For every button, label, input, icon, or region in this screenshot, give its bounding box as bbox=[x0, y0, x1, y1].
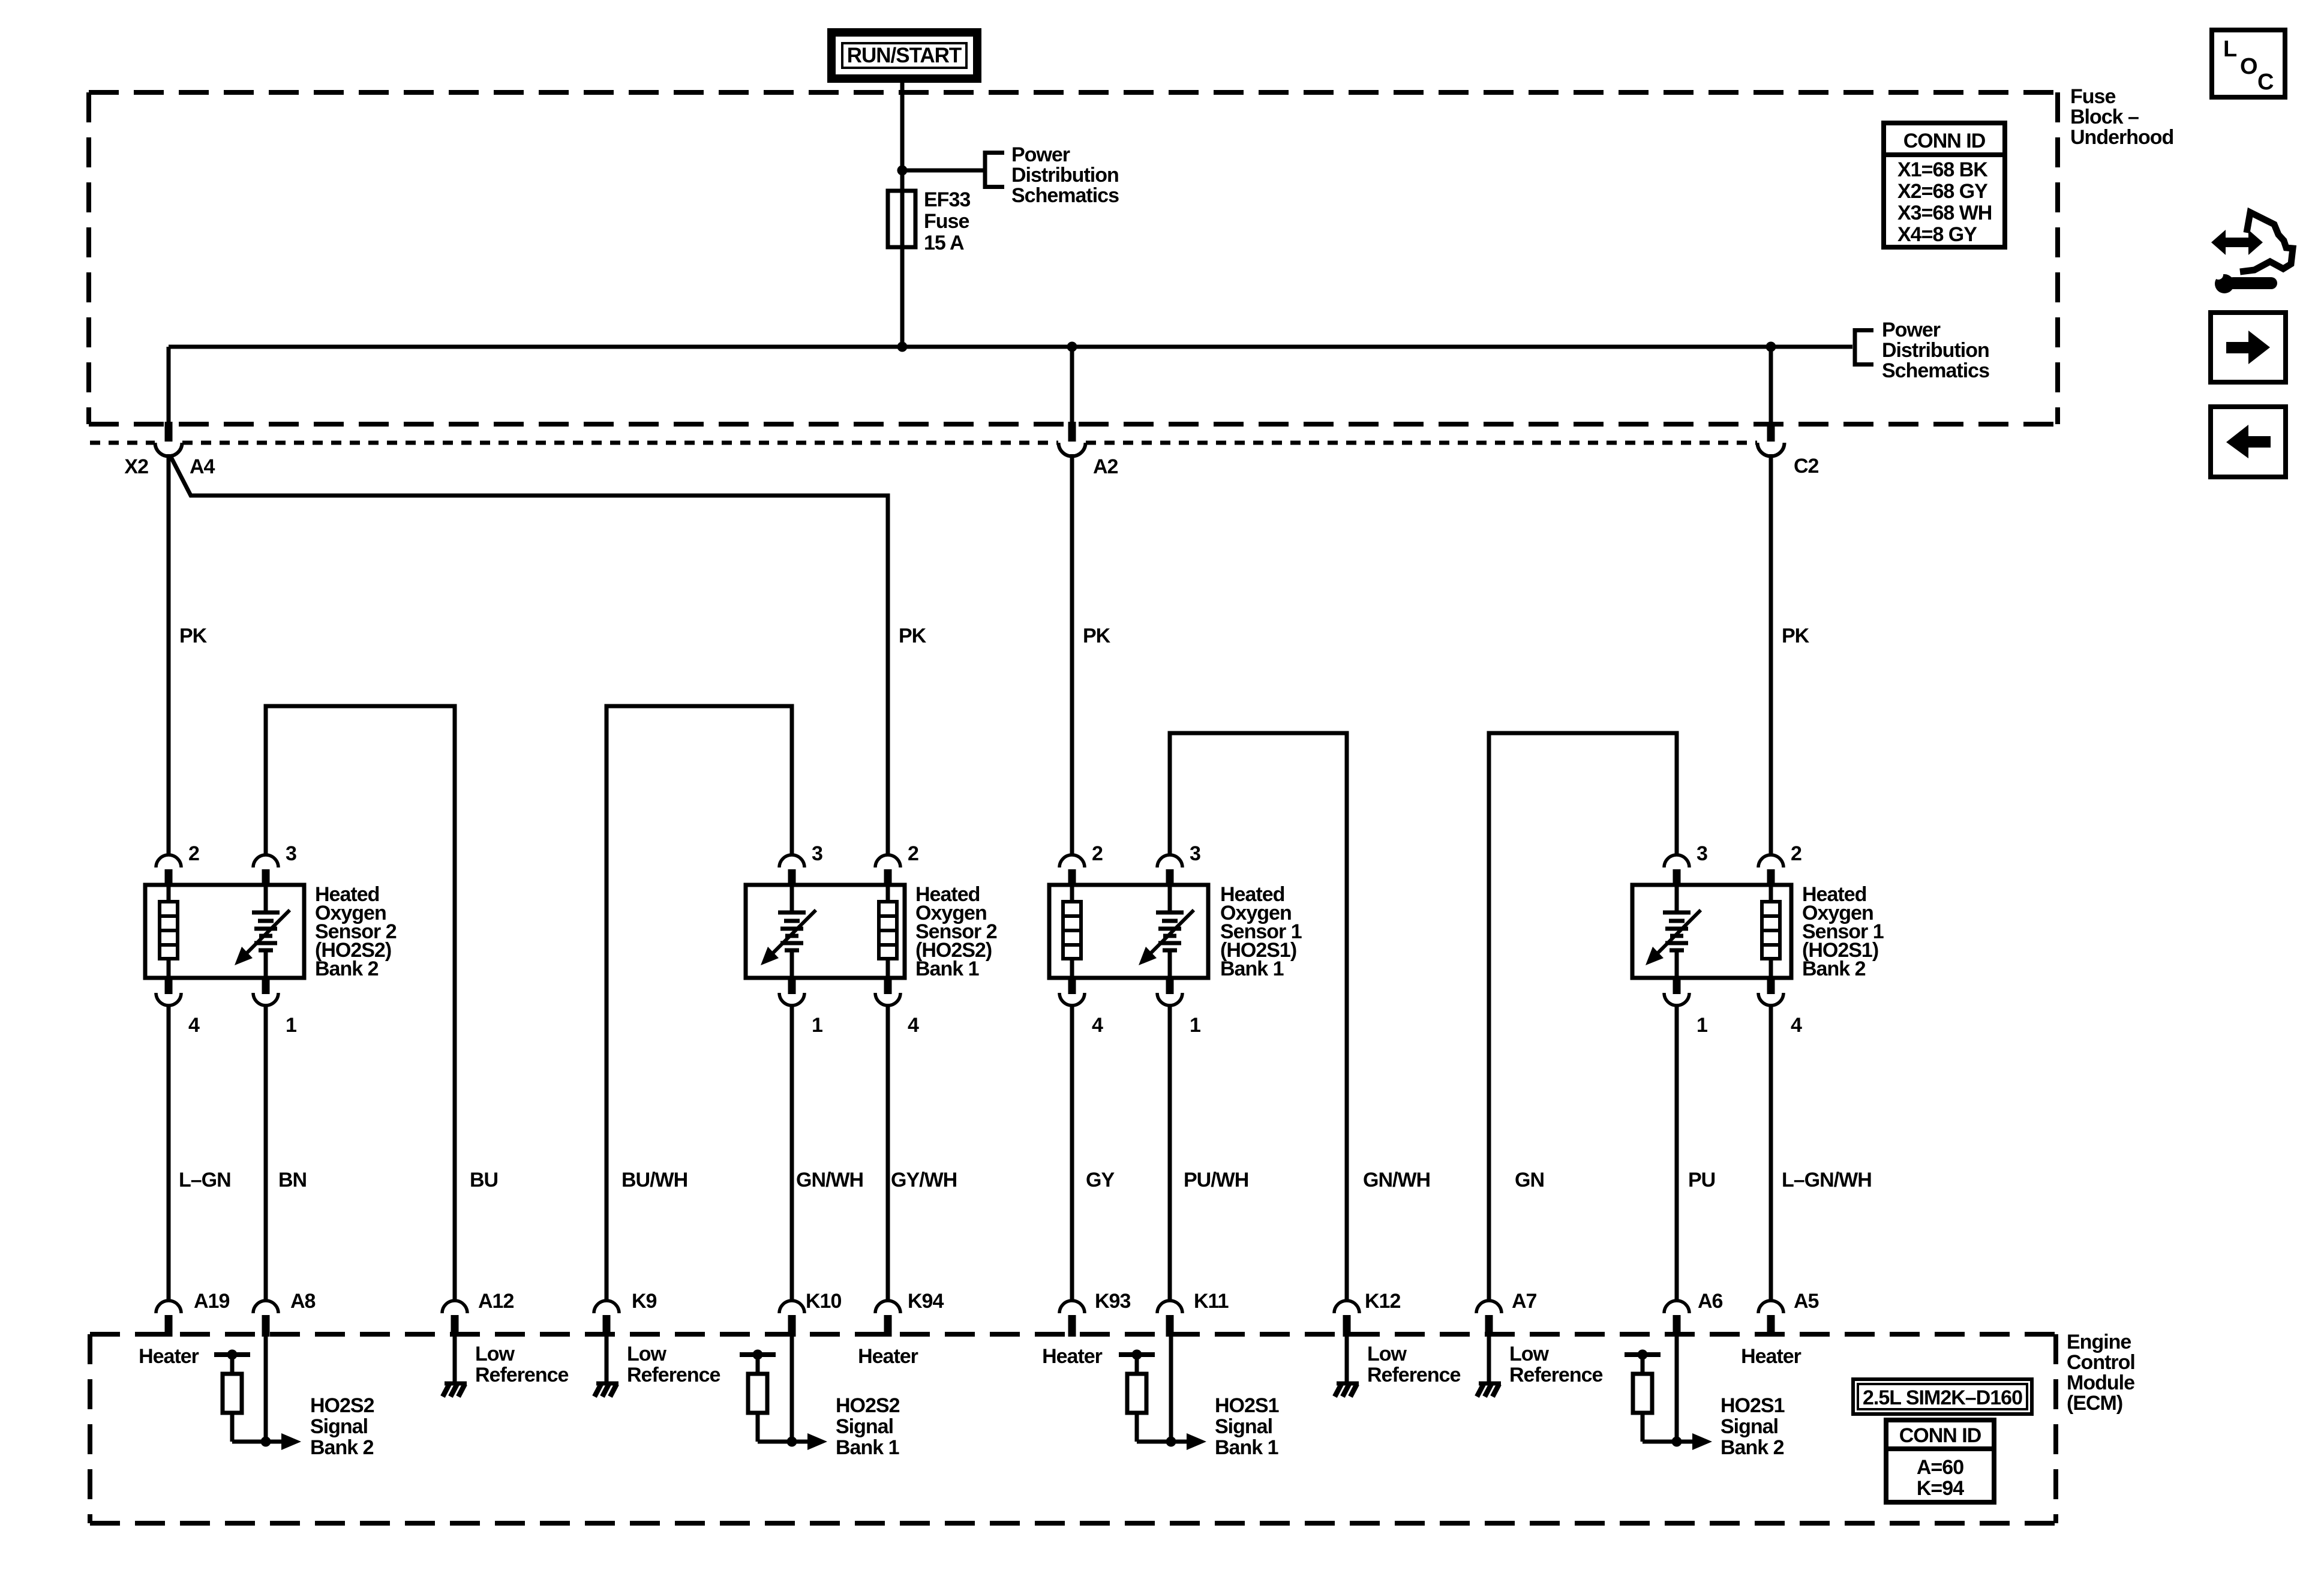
svg-text:2.5L SIM2K–D160: 2.5L SIM2K–D160 bbox=[1863, 1386, 2022, 1409]
signal arrow bbox=[1171, 1440, 1188, 1444]
svg-text:K=94: K=94 bbox=[1917, 1477, 1964, 1500]
svg-text:PK: PK bbox=[179, 625, 208, 647]
svg-text:K10: K10 bbox=[806, 1290, 841, 1313]
resistor (pull-up HO2S1 Bank 1) bbox=[1119, 1352, 1155, 1357]
connector pin 4 (HO2S1 Bank 1) bbox=[1068, 978, 1076, 994]
node signal junction bbox=[1166, 1437, 1176, 1447]
fuse block dashed box bbox=[89, 90, 2058, 95]
connector pin A8 (ECM) bbox=[253, 1301, 278, 1313]
sensing cell (HO2S1 Bank 1) bbox=[1168, 885, 1172, 912]
svg-text:1: 1 bbox=[286, 1014, 296, 1037]
svg-text:Engine: Engine bbox=[2067, 1331, 2131, 1353]
connector A2 bbox=[1070, 347, 1074, 424]
connector boundary dotted line bbox=[90, 441, 155, 445]
svg-text:GY/WH: GY/WH bbox=[891, 1169, 957, 1191]
wire sensor drop x=1787 bbox=[1070, 1008, 1074, 1301]
svg-text:X2=68 GY: X2=68 GY bbox=[1897, 180, 1988, 203]
connector pin 4 (HO2S1 Bank 2) bbox=[1767, 978, 1775, 994]
wire low reference x=2245 bbox=[1345, 1337, 1349, 1382]
node junction to power distribution bbox=[897, 166, 908, 176]
wire jog K9 to sensor2 pin3 bbox=[606, 706, 792, 1301]
wire sensor drop x=443 bbox=[264, 1008, 268, 1301]
icon arrow-left box bbox=[2211, 407, 2286, 477]
svg-text:X1=68 BK: X1=68 BK bbox=[1897, 158, 1988, 181]
svg-text:BN: BN bbox=[278, 1169, 307, 1191]
svg-text:A8: A8 bbox=[290, 1290, 316, 1313]
svg-text:Control: Control bbox=[2067, 1351, 2135, 1374]
connector pin K9 (ECM) bbox=[594, 1301, 619, 1313]
wire PK A4 branch to HO2S2 bank1 pin2 bbox=[170, 455, 888, 855]
wire sensor drop x=1480 bbox=[886, 1008, 890, 1301]
svg-text:4: 4 bbox=[188, 1014, 200, 1037]
svg-text:Power: Power bbox=[1882, 319, 1941, 341]
svg-text:Heater: Heater bbox=[858, 1345, 918, 1368]
svg-text:Bank 1: Bank 1 bbox=[836, 1436, 899, 1459]
connector pin 4 (HO2S2 Bank 2) bbox=[165, 978, 173, 994]
svg-text:2: 2 bbox=[908, 842, 918, 865]
node signal junction bbox=[261, 1437, 271, 1447]
wire PK A4 to HO2S2 bank2 pin2 bbox=[167, 454, 171, 855]
heated oxygen sensor HO2S1 Bank 2 bbox=[1632, 885, 1791, 978]
heater element (HO2S2 Bank 1) bbox=[886, 885, 890, 902]
signal arrow bbox=[266, 1440, 283, 1444]
signal circuit HO2S1 Bank 1 bbox=[1169, 1337, 1173, 1442]
heated oxygen sensor HO2S2 Bank 1 bbox=[746, 885, 905, 978]
node signal junction bbox=[1672, 1437, 1682, 1447]
connector pin 1 (HO2S1 Bank 1) bbox=[1166, 978, 1174, 994]
svg-text:PU/WH: PU/WH bbox=[1184, 1169, 1248, 1191]
svg-text:PK: PK bbox=[899, 625, 927, 647]
connector pin 3 (HO2S1 Bank 2) bbox=[1664, 855, 1689, 867]
svg-text:2: 2 bbox=[1092, 842, 1103, 865]
ground (low reference) bbox=[1337, 1382, 1359, 1386]
svg-text:Bank 1: Bank 1 bbox=[915, 957, 979, 980]
icon connector-tool (double arrow, outline, wrench) bbox=[2211, 212, 2293, 293]
CONN ID table (ECM) bbox=[1886, 1420, 1994, 1502]
node fuse/bus junction bbox=[897, 342, 908, 352]
wire bus inside fuse block bbox=[169, 345, 1852, 349]
svg-text:GN/WH: GN/WH bbox=[796, 1169, 863, 1191]
svg-text:CONN ID: CONN ID bbox=[1903, 130, 1986, 152]
heater element (HO2S2 Bank 2) bbox=[167, 885, 171, 902]
signal circuit HO2S2 Bank 2 bbox=[264, 1337, 268, 1442]
svg-text:Fuse: Fuse bbox=[924, 210, 969, 233]
svg-text:15 A: 15 A bbox=[924, 232, 964, 254]
svg-text:PK: PK bbox=[1083, 625, 1111, 647]
connector pin 4 (HO2S2 Bank 1) bbox=[884, 978, 892, 994]
svg-text:Signal: Signal bbox=[310, 1415, 368, 1438]
resistor (pull-up HO2S2 Bank 2) bbox=[214, 1352, 250, 1357]
svg-text:A5: A5 bbox=[1794, 1290, 1819, 1313]
wire branch to power distribution bbox=[902, 169, 985, 173]
wire RUN/START down bbox=[900, 79, 905, 347]
connector pin 3 (HO2S2 Bank 2) bbox=[253, 855, 278, 867]
sensing cell (HO2S2 Bank 2) bbox=[264, 885, 268, 912]
wire low reference x=2482 bbox=[1487, 1337, 1491, 1382]
wire jog sensor3 pin3 to K12 bbox=[1170, 733, 1347, 1301]
svg-text:1: 1 bbox=[812, 1014, 822, 1037]
svg-text:A7: A7 bbox=[1512, 1290, 1537, 1313]
connector pin A5 (ECM) bbox=[1758, 1301, 1783, 1313]
svg-text:HO2S2: HO2S2 bbox=[836, 1394, 900, 1417]
svg-text:Reference: Reference bbox=[627, 1364, 720, 1386]
connector pin 1 (HO2S2 Bank 1) bbox=[788, 978, 796, 994]
svg-text:GN: GN bbox=[1515, 1169, 1544, 1191]
svg-text:2: 2 bbox=[1791, 842, 1801, 865]
svg-text:Reference: Reference bbox=[475, 1364, 569, 1386]
connector pin 2 (HO2S2 Bank 2) bbox=[156, 855, 181, 867]
svg-text:RUN/START: RUN/START bbox=[847, 44, 962, 67]
svg-text:GY: GY bbox=[1086, 1169, 1115, 1191]
svg-text:Low: Low bbox=[1367, 1343, 1407, 1365]
svg-text:A12: A12 bbox=[478, 1290, 514, 1313]
svg-text:Bank 2: Bank 2 bbox=[315, 957, 379, 980]
svg-text:Signal: Signal bbox=[1215, 1415, 1272, 1438]
svg-text:X4=8 GY: X4=8 GY bbox=[1897, 223, 1977, 246]
ground (low reference) bbox=[1479, 1382, 1501, 1386]
connector pin A6 (ECM) bbox=[1664, 1301, 1689, 1313]
svg-text:Signal: Signal bbox=[1721, 1415, 1778, 1438]
connector pin K12 (ECM) bbox=[1334, 1301, 1359, 1313]
svg-text:Reference: Reference bbox=[1367, 1364, 1461, 1386]
svg-text:3: 3 bbox=[1190, 842, 1200, 865]
wire sensor drop x=1950 bbox=[1168, 1008, 1172, 1301]
svg-text:CONN ID: CONN ID bbox=[1899, 1424, 1981, 1447]
svg-text:Bank 2: Bank 2 bbox=[310, 1436, 374, 1459]
svg-text:2: 2 bbox=[188, 842, 199, 865]
svg-text:K12: K12 bbox=[1365, 1290, 1400, 1313]
svg-text:Low: Low bbox=[1509, 1343, 1550, 1365]
svg-text:Signal: Signal bbox=[836, 1415, 893, 1438]
svg-text:GN/WH: GN/WH bbox=[1363, 1169, 1430, 1191]
svg-text:4: 4 bbox=[1092, 1014, 1103, 1037]
wire low reference x=758 bbox=[453, 1337, 457, 1382]
svg-text:Distribution: Distribution bbox=[1882, 339, 1989, 362]
signal arrow bbox=[792, 1440, 809, 1444]
svg-text:C: C bbox=[2257, 70, 2274, 95]
icon arrow-right box bbox=[2211, 313, 2286, 382]
svg-text:1: 1 bbox=[1190, 1014, 1200, 1037]
svg-text:Heater: Heater bbox=[139, 1345, 199, 1368]
resistor (pull-up HO2S2 Bank 1) bbox=[740, 1352, 776, 1357]
svg-text:L: L bbox=[2223, 37, 2237, 62]
heater element (HO2S1 Bank 1) bbox=[1070, 885, 1074, 902]
svg-text:3: 3 bbox=[812, 842, 822, 865]
engine control module dashed box bbox=[90, 1332, 2056, 1337]
wire sensor drop x=281 bbox=[167, 1008, 171, 1301]
svg-text:X2: X2 bbox=[124, 455, 148, 478]
svg-text:X3=68 WH: X3=68 WH bbox=[1897, 202, 1992, 224]
svg-text:Heater: Heater bbox=[1741, 1345, 1801, 1368]
svg-text:3: 3 bbox=[1697, 842, 1707, 865]
heater element (HO2S1 Bank 2) bbox=[1769, 885, 1773, 902]
svg-text:A=60: A=60 bbox=[1917, 1456, 1963, 1479]
connector pin 1 (HO2S1 Bank 2) bbox=[1673, 978, 1681, 994]
svg-text:Module: Module bbox=[2067, 1371, 2134, 1394]
icon LOC box bbox=[2212, 30, 2285, 97]
node C2 junction bbox=[1766, 342, 1776, 352]
connector X2 pin A4 bbox=[167, 347, 171, 424]
connector pin A12 (ECM) bbox=[442, 1301, 467, 1313]
connector pin K10 (ECM) bbox=[779, 1301, 804, 1313]
connector pin 1 (HO2S2 Bank 2) bbox=[262, 978, 270, 994]
wire PK C2 to HO2S1 bank2 pin2 bbox=[1769, 454, 1773, 855]
svg-text:Heater: Heater bbox=[1042, 1345, 1103, 1368]
svg-text:K93: K93 bbox=[1095, 1290, 1130, 1313]
node signal junction bbox=[787, 1437, 797, 1447]
wire jog sensor1 pin3 to A12 bbox=[266, 706, 455, 1301]
svg-text:A2: A2 bbox=[1093, 455, 1118, 478]
svg-text:K9: K9 bbox=[632, 1290, 657, 1313]
svg-text:HO2S1: HO2S1 bbox=[1215, 1394, 1279, 1417]
resistor (pull-up HO2S1 Bank 2) bbox=[1625, 1352, 1661, 1357]
wire sensor drop x=1320 bbox=[790, 1008, 794, 1301]
svg-text:3: 3 bbox=[286, 842, 296, 865]
svg-text:1: 1 bbox=[1697, 1014, 1707, 1037]
node A2 junction bbox=[1067, 342, 1077, 352]
ground (low reference) bbox=[445, 1382, 467, 1386]
svg-text:A6: A6 bbox=[1698, 1290, 1723, 1313]
signal arrow bbox=[1677, 1440, 1694, 1444]
label 2.5L SIM2K-D160 bbox=[1853, 1379, 2032, 1414]
wire sensor drop x=2795 bbox=[1675, 1008, 1679, 1301]
svg-text:PK: PK bbox=[1782, 625, 1810, 647]
svg-text:Reference: Reference bbox=[1509, 1364, 1603, 1386]
svg-text:Power: Power bbox=[1011, 143, 1070, 166]
svg-text:A4: A4 bbox=[190, 455, 215, 478]
svg-text:HO2S2: HO2S2 bbox=[310, 1394, 374, 1417]
connector pin K93 (ECM) bbox=[1059, 1301, 1085, 1313]
connector pin A7 (ECM) bbox=[1476, 1301, 1502, 1313]
svg-text:Bank 1: Bank 1 bbox=[1220, 957, 1284, 980]
svg-text:Bank 2: Bank 2 bbox=[1721, 1436, 1784, 1459]
wire sensor drop x=2952 bbox=[1769, 1008, 1773, 1301]
heated oxygen sensor HO2S2 Bank 2 bbox=[145, 885, 304, 978]
svg-text:HO2S1: HO2S1 bbox=[1721, 1394, 1785, 1417]
connector pin 2 (HO2S2 Bank 1) bbox=[875, 855, 900, 867]
wire PK A2 to HO2S1 bank1 pin2 bbox=[1070, 454, 1074, 855]
svg-text:PU: PU bbox=[1688, 1169, 1715, 1191]
svg-text:EF33: EF33 bbox=[924, 188, 970, 211]
signal circuit HO2S1 Bank 2 bbox=[1675, 1337, 1679, 1442]
svg-text:4: 4 bbox=[908, 1014, 919, 1037]
svg-text:K11: K11 bbox=[1194, 1290, 1229, 1313]
connector pin K11 (ECM) bbox=[1157, 1301, 1182, 1313]
svg-text:Fuse: Fuse bbox=[2070, 85, 2115, 108]
svg-text:BU/WH: BU/WH bbox=[621, 1169, 687, 1191]
wire jog A7 to sensor4 pin3 bbox=[1489, 733, 1677, 1301]
connector pin 3 (HO2S1 Bank 1) bbox=[1157, 855, 1182, 867]
svg-text:Bank 1: Bank 1 bbox=[1215, 1436, 1278, 1459]
svg-text:Underhood: Underhood bbox=[2070, 126, 2173, 149]
connector pin 2 (HO2S1 Bank 2) bbox=[1758, 855, 1783, 867]
svg-text:Schematics: Schematics bbox=[1011, 184, 1119, 207]
connector pin K94 (ECM) bbox=[875, 1301, 900, 1313]
svg-text:4: 4 bbox=[1791, 1014, 1802, 1037]
sensing cell (HO2S1 Bank 2) bbox=[1675, 885, 1679, 912]
ground (low reference) bbox=[596, 1382, 618, 1386]
connector C2 bbox=[1769, 347, 1773, 424]
sensing cell (HO2S2 Bank 1) bbox=[790, 885, 794, 912]
svg-text:C2: C2 bbox=[1794, 455, 1819, 478]
svg-text:Schematics: Schematics bbox=[1882, 359, 1989, 382]
off-page bracket (power distribution, right) bbox=[1853, 328, 1857, 367]
svg-text:L–GN/WH: L–GN/WH bbox=[1782, 1169, 1872, 1191]
svg-text:Low: Low bbox=[475, 1343, 515, 1365]
svg-text:O: O bbox=[2240, 54, 2257, 79]
fuse EF33 15 A bbox=[888, 191, 915, 247]
svg-text:BU: BU bbox=[470, 1169, 498, 1191]
svg-text:(ECM): (ECM) bbox=[2067, 1392, 2122, 1415]
svg-text:A19: A19 bbox=[194, 1290, 229, 1313]
heated oxygen sensor HO2S1 Bank 1 bbox=[1049, 885, 1208, 978]
connector pin A19 (ECM) bbox=[156, 1301, 181, 1313]
wire low reference x=1011 bbox=[605, 1337, 609, 1382]
connector pin 2 (HO2S1 Bank 1) bbox=[1059, 855, 1085, 867]
switch RUN/START bbox=[831, 32, 977, 79]
svg-text:K94: K94 bbox=[908, 1290, 944, 1313]
signal circuit HO2S2 Bank 1 bbox=[790, 1337, 794, 1442]
off-page bracket (power distribution, top) bbox=[983, 151, 987, 189]
svg-text:Bank 2: Bank 2 bbox=[1802, 957, 1866, 980]
svg-text:Low: Low bbox=[627, 1343, 667, 1365]
svg-text:Block –: Block – bbox=[2070, 106, 2139, 128]
CONN ID table (fuse block) bbox=[1884, 123, 2005, 247]
connector pin 3 (HO2S2 Bank 1) bbox=[779, 855, 804, 867]
svg-text:Distribution: Distribution bbox=[1011, 164, 1119, 187]
svg-text:L–GN: L–GN bbox=[179, 1169, 231, 1191]
